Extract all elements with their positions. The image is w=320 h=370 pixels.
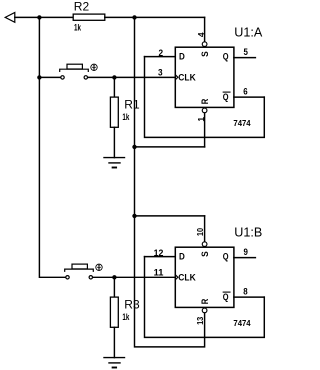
wire set B vertical — [204, 216, 206, 241]
svg-text:Q: Q — [223, 92, 229, 102]
node junction dot reset A — [132, 145, 136, 149]
U1:B pin 12 wire — [145, 256, 176, 258]
svg-text:S: S — [200, 51, 210, 57]
svg-text:8: 8 — [243, 287, 247, 297]
svg-text:6: 6 — [243, 87, 247, 97]
wire button A left — [39, 76, 60, 78]
pushbutton A cap — [67, 64, 82, 69]
U1:B Qbar overline — [223, 291, 230, 293]
svg-text:D: D — [179, 252, 185, 262]
flip-flop U1:A box — [175, 47, 234, 107]
U1:B set bubble — [202, 242, 207, 247]
wire top rail right — [105, 16, 205, 18]
svg-text:4: 4 — [196, 32, 206, 37]
pushbutton A contact right — [84, 76, 87, 79]
svg-text:R2: R2 — [74, 0, 90, 14]
U1:A reset bubble — [202, 108, 207, 113]
node junction dot right top — [132, 15, 136, 19]
svg-text:12: 12 — [154, 248, 164, 258]
pushbutton B contact right — [89, 276, 92, 279]
node junction dot R1 top — [112, 75, 116, 79]
wire feedback A — [145, 57, 265, 138]
pushbutton A contact left — [61, 76, 64, 79]
wire set B horizontal — [135, 215, 205, 217]
svg-text:Q: Q — [223, 252, 229, 262]
svg-text:9: 9 — [244, 247, 248, 257]
svg-text:1k: 1k — [122, 112, 130, 122]
resistor R3 — [110, 297, 118, 327]
svg-text:R: R — [200, 298, 210, 304]
svg-text:7474: 7474 — [233, 319, 251, 328]
pushbutton A actuator symbol — [91, 64, 97, 70]
svg-text:10: 10 — [195, 228, 205, 236]
wire R3 bottom — [113, 327, 115, 357]
svg-text:2: 2 — [159, 48, 164, 58]
pushbutton B cap — [72, 264, 87, 269]
U1:B pin 8 wire — [234, 296, 264, 298]
wire R1 top — [113, 77, 115, 97]
pushbutton B bar — [65, 269, 94, 271]
svg-text:1k: 1k — [74, 22, 82, 32]
svg-text:U1:A: U1:A — [234, 25, 263, 39]
node junction dot button A — [37, 75, 41, 79]
wire R3 top — [113, 277, 115, 297]
wire main vertical set-reset net — [135, 17, 205, 347]
wire top rail left — [15, 16, 73, 18]
svg-text:S: S — [200, 251, 210, 257]
node junction dot left top — [37, 15, 41, 19]
U1:A pin 6 wire — [234, 96, 264, 98]
wire reset A horizontal — [135, 146, 205, 148]
svg-text:R1: R1 — [124, 97, 140, 111]
flip-flop U1:B box — [175, 247, 234, 307]
U1:A set bubble — [202, 42, 207, 47]
svg-text:7474: 7474 — [233, 119, 251, 128]
svg-text:11: 11 — [154, 267, 164, 277]
U1:A pin 5 wire — [234, 57, 256, 59]
wire R1 bottom — [113, 127, 115, 157]
pushbutton B contact left — [66, 276, 69, 279]
ground A — [104, 158, 125, 168]
svg-text:Q: Q — [223, 52, 229, 62]
pushbutton B actuator symbol — [96, 264, 102, 270]
wire left vertical bus — [39, 17, 65, 277]
U1:B clock wedge — [175, 275, 178, 280]
svg-text:13: 13 — [195, 316, 205, 324]
svg-text:1k: 1k — [122, 312, 130, 322]
input connector arrow — [5, 13, 15, 23]
svg-text:CLK: CLK — [178, 72, 196, 82]
svg-text:CLK: CLK — [178, 272, 196, 282]
U1:A pin 2 wire — [145, 56, 176, 58]
node junction dot R3 top — [112, 275, 116, 279]
wire button B to CLK — [93, 276, 175, 278]
wire reset A vertical to bubble — [204, 113, 206, 147]
resistor R2 — [73, 14, 105, 20]
svg-text:U1:B: U1:B — [234, 225, 262, 239]
ground B — [104, 358, 125, 368]
svg-text:D: D — [179, 52, 185, 62]
node junction dot set B — [132, 214, 136, 218]
U1:B pin 9 wire — [234, 257, 256, 259]
pushbutton A bar — [60, 69, 89, 71]
U1:B reset bubble — [202, 308, 207, 313]
svg-text:R: R — [200, 98, 210, 104]
svg-text:1: 1 — [196, 117, 206, 122]
wire button A to CLK — [88, 76, 175, 78]
svg-text:3: 3 — [158, 67, 163, 77]
U1:A Qbar overline — [223, 91, 230, 93]
resistor R1 — [110, 97, 118, 127]
U1:A clock wedge — [175, 75, 178, 80]
wire to S pin of U1:A — [204, 17, 206, 41]
wire feedback B — [145, 257, 265, 338]
svg-text:5: 5 — [244, 47, 248, 57]
svg-text:R3: R3 — [124, 297, 140, 311]
svg-text:Q: Q — [223, 292, 229, 302]
